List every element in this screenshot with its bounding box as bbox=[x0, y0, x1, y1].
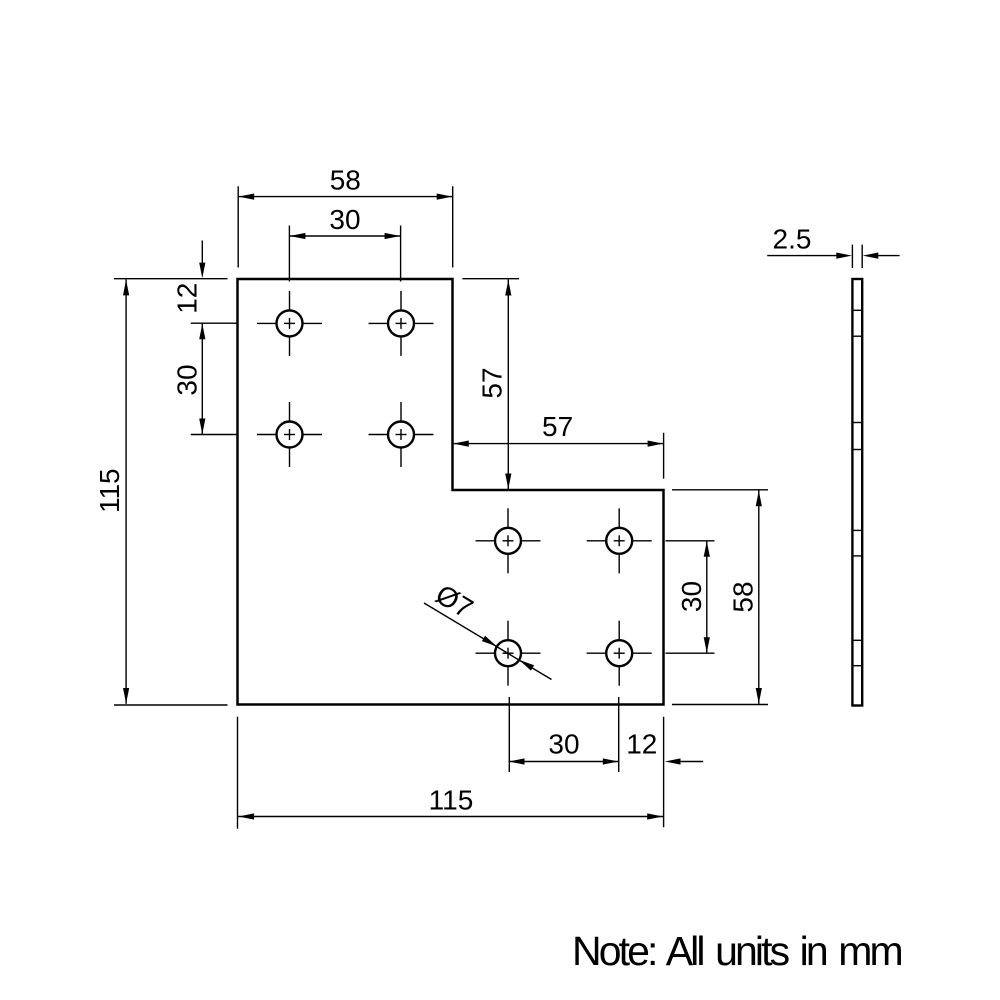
dimension 58 top extension lines bbox=[237, 186, 239, 267]
svg-text:115: 115 bbox=[429, 785, 474, 816]
dimension 115 bottom arrows bbox=[239, 813, 255, 819]
dimension 115 left dimension line bbox=[125, 279, 127, 704]
dimension 30 top dimension line bbox=[289, 235, 400, 237]
hole D crosshair bbox=[369, 402, 434, 467]
dimension 12 left arrow bbox=[199, 263, 205, 279]
svg-text:58: 58 bbox=[727, 581, 758, 612]
hole E center mark bbox=[503, 535, 514, 546]
dimension 58 top dimension line bbox=[238, 196, 453, 198]
dimension 30 left arrows bbox=[199, 324, 205, 340]
dimension 58 right extension lines bbox=[672, 489, 768, 491]
dimension 12 bottom arrow line bbox=[680, 761, 703, 763]
dimension 2.5 extension lines bbox=[851, 245, 853, 268]
dimension 30 bottom arrows bbox=[509, 758, 525, 764]
hole E crosshair bbox=[476, 508, 541, 573]
hole C circle bbox=[277, 422, 303, 448]
hole G center mark bbox=[503, 648, 514, 659]
dimension 30 right dimension line bbox=[706, 541, 708, 653]
dimension 30 bottom extension lines bbox=[508, 697, 510, 772]
svg-text:12: 12 bbox=[626, 729, 657, 760]
dimension 12 bottom arrow bbox=[665, 758, 681, 764]
dimension 30 right extension lines bbox=[666, 540, 715, 542]
hole F circle bbox=[606, 528, 632, 554]
dimension 115 left extension lines bbox=[114, 278, 228, 280]
hole F crosshair bbox=[587, 508, 652, 573]
svg-text:115: 115 bbox=[94, 468, 125, 513]
svg-text:57: 57 bbox=[477, 367, 508, 398]
svg-text:30: 30 bbox=[676, 581, 707, 612]
dimension 30 left extension lines bbox=[191, 322, 237, 324]
svg-text:30: 30 bbox=[329, 204, 360, 235]
svg-text:30: 30 bbox=[171, 364, 202, 395]
plate outline front view bbox=[238, 279, 664, 705]
dimension 2.5 arrow lines bbox=[767, 255, 837, 257]
hole H center mark bbox=[614, 648, 625, 659]
hole D center mark bbox=[396, 429, 407, 440]
hole B center mark bbox=[396, 318, 407, 329]
dimension 58 right arrows bbox=[756, 491, 762, 507]
hole F center mark bbox=[614, 535, 625, 546]
hole G circle bbox=[495, 640, 521, 666]
hole H circle bbox=[606, 640, 632, 666]
svg-text:Note: All units in mm: Note: All units in mm bbox=[572, 928, 902, 974]
dimension 115 bottom extension line bbox=[237, 717, 239, 829]
dimension 57 vertical dimension line bbox=[507, 280, 509, 490]
hole A circle bbox=[277, 310, 303, 336]
dimension 115 bottom dimension line bbox=[238, 816, 663, 818]
svg-text:57: 57 bbox=[542, 411, 573, 442]
dimension 30 bottom dimension line bbox=[509, 761, 619, 763]
svg-text:58: 58 bbox=[330, 165, 361, 196]
hole G crosshair bbox=[476, 621, 541, 686]
dimension 57 horizontal dimension line bbox=[453, 443, 664, 445]
hole E circle bbox=[495, 528, 521, 554]
svg-text:12: 12 bbox=[171, 283, 202, 314]
side view plate bbox=[852, 279, 862, 706]
dimension 58 right dimension line bbox=[758, 490, 760, 704]
dimension 57 vertical arrows bbox=[505, 280, 511, 296]
dimension 30 top extension lines bbox=[288, 226, 290, 282]
hole A crosshair bbox=[257, 291, 322, 356]
hole D circle bbox=[388, 422, 414, 448]
side view hole edge lines bbox=[852, 310, 862, 665]
dimension 57 vertical extension line bbox=[462, 278, 519, 280]
svg-text:30: 30 bbox=[548, 729, 579, 760]
hole B crosshair bbox=[369, 291, 434, 356]
dimension 12 left arrow line above bbox=[201, 241, 203, 264]
dimension 2.5 arrows bbox=[836, 253, 852, 259]
hole C center mark bbox=[284, 429, 295, 440]
hole diameter leader line bbox=[424, 603, 552, 680]
dimension 30 top arrows bbox=[290, 233, 306, 239]
dimension 57 horizontal arrows bbox=[453, 441, 469, 447]
dimension 12 bottom extension line bbox=[663, 717, 665, 827]
hole B circle bbox=[388, 310, 414, 336]
dimension 115 left arrows bbox=[123, 280, 129, 296]
dimension 30 right arrows bbox=[704, 541, 710, 557]
dimension 30 left dimension line bbox=[201, 323, 203, 434]
hole C crosshair bbox=[257, 402, 322, 467]
svg-text:2.5: 2.5 bbox=[773, 223, 812, 254]
dimension 57 horizontal extension line bbox=[663, 433, 665, 479]
hole A center mark bbox=[284, 318, 295, 329]
dimension 58 top arrows bbox=[239, 194, 255, 200]
hole diameter leader arrows bbox=[482, 636, 497, 647]
hole H crosshair bbox=[587, 621, 652, 686]
